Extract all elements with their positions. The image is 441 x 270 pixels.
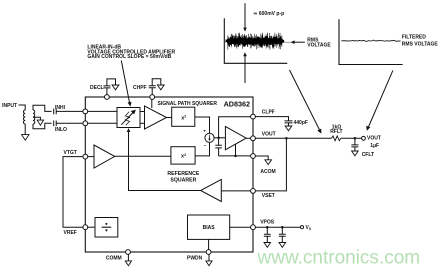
wire summing node to reference squarer: [195, 142, 209, 156]
wire BIAS to VPOS: [230, 226, 251, 228]
wire VSET external feedback: [256, 138, 287, 191]
capacitor CFLT: [351, 145, 358, 147]
wire VPOS to VS terminal: [256, 226, 301, 228]
pin VOUT: [251, 136, 256, 141]
svg-text:INHI: INHI: [55, 105, 66, 111]
pin VREF: [83, 225, 88, 230]
wire supply cap 2: [281, 227, 283, 234]
annotation VGA note: [87, 45, 175, 61]
ground primary: [22, 135, 29, 141]
wire secondary center tap: [33, 117, 40, 120]
VSET buffer triangle: [201, 179, 222, 201]
label divide symbol: [102, 223, 112, 232]
svg-text:VSET: VSET: [262, 193, 275, 199]
wire cap to INLO pin: [56, 122, 83, 124]
svg-text:GAIN CONTROL SLOPE = 50mV/dB: GAIN CONTROL SLOPE = 50mV/dB: [87, 54, 171, 60]
wire CFLT to ground: [354, 147, 356, 151]
wire INLO pin to VGA: [88, 122, 117, 124]
right scope filtered trace: [341, 40, 400, 41]
wire amplifier to squarer: [167, 117, 172, 119]
svg-text:RMS VOLTAGE: RMS VOLTAGE: [402, 42, 439, 48]
svg-text:VOLTAGE: VOLTAGE: [307, 43, 331, 49]
wire VTGT pin to buffer: [88, 156, 94, 158]
wire INHI pin to VGA: [88, 110, 117, 112]
wire CLPF pin internal: [219, 117, 251, 138]
wire buffer to VOUT pin: [246, 137, 250, 139]
wire VGA to amplifier lower: [140, 122, 145, 124]
ground center tap: [37, 120, 43, 125]
wire COMM to ground: [127, 255, 129, 261]
wire VGA to amplifier upper: [140, 111, 145, 113]
wire VOUT to RFLT: [256, 137, 332, 139]
wire 440pF to ground: [288, 123, 290, 126]
label FILTERED RMS VOLTAGE: [402, 35, 439, 48]
svg-text:CLPF: CLPF: [262, 110, 275, 116]
node CFLT junction: [354, 137, 357, 140]
svg-text:BIAS: BIAS: [203, 225, 216, 231]
svg-text:REFERENCE: REFERENCE: [167, 171, 200, 177]
capacitor INHI coupling: [54, 109, 57, 115]
arrow down to waveform top: [243, 3, 247, 31]
wire cap to INHI pin: [56, 110, 83, 112]
transformer T1 primary winding: [23, 110, 25, 124]
callout line left scope to VOUT wire: [290, 70, 322, 134]
wire CHPF cap to ground: [152, 79, 161, 86]
wire supply cap 1: [266, 227, 268, 234]
wire primary to ground: [24, 124, 26, 135]
svg-text:SIGNAL PATH SQUARER: SIGNAL PATH SQUARER: [158, 101, 218, 107]
wire BIAS to PWDN: [208, 239, 210, 249]
svg-text:INPUT: INPUT: [2, 103, 17, 109]
arrow RMS VOLTAGE to waveform: [291, 40, 305, 44]
svg-text:SQUARER: SQUARER: [170, 178, 196, 184]
wire VSET pin to buffer: [221, 190, 250, 192]
svg-text:ACOM: ACOM: [260, 169, 275, 175]
wire PWDN to ground: [208, 255, 210, 261]
pin VSET: [251, 189, 256, 194]
VGA variable gain amplifier box: [117, 108, 140, 128]
wire supply cap 2 to ground: [281, 236, 283, 242]
svg-text:AD8362: AD8362: [224, 99, 250, 108]
wire VTGT to VREF external: [63, 157, 83, 228]
pin CHPF: [150, 95, 155, 100]
capacitor INLO coupling: [54, 121, 57, 127]
svg-text:COMM: COMM: [106, 256, 122, 262]
terminal VOUT: [362, 136, 366, 140]
wire squarer to summing node: [195, 117, 210, 133]
callout line right scope to VOUT terminal: [366, 70, 393, 130]
ground CHPF: [157, 85, 164, 90]
wire INPUT to transformer primary: [19, 105, 26, 110]
output buffer triangle: [225, 127, 246, 150]
pin CLPF: [251, 114, 256, 119]
pin ACOM: [251, 154, 256, 159]
VGA variable symbol: [121, 110, 136, 126]
svg-text:CHPF: CHPF: [133, 85, 147, 91]
ground DECL: [112, 85, 119, 90]
wire VTGT buffer to reference squarer: [115, 155, 171, 157]
wire DECL cap to ground: [107, 79, 116, 86]
svg-text:−: −: [204, 143, 207, 148]
wire VREF to divider box: [88, 226, 95, 228]
divider box: [95, 218, 118, 238]
transformer T1 secondary winding: [33, 110, 35, 124]
pin INLO: [83, 121, 88, 126]
capacitor CLPF internal: [215, 138, 222, 156]
ground COMM: [125, 261, 131, 266]
VTGT buffer triangle: [94, 145, 115, 168]
summing node current source: [205, 133, 214, 142]
capacitor supply 1: [264, 234, 271, 236]
pin DECL: [105, 95, 110, 100]
ground 440pF: [285, 126, 292, 131]
node VOUT VSET junction: [285, 137, 288, 140]
svg-text:+: +: [203, 129, 206, 134]
BIAS box: [188, 215, 230, 239]
arrow gain control into VGA: [127, 128, 131, 132]
annotation arrow to VGA: [121, 61, 131, 107]
wire ACOM to ground: [256, 156, 269, 160]
svg-text:440pF: 440pF: [294, 120, 308, 126]
capacitor 440pF: [285, 121, 293, 123]
pin INHI: [83, 109, 88, 114]
label REFERENCE SQUARER: [167, 171, 200, 184]
reference squarer box: [171, 147, 195, 164]
ground CFLT: [352, 151, 359, 156]
wire RFLT to VOUT terminal: [341, 137, 362, 139]
wire CLPF external to cap: [256, 117, 289, 121]
svg-text:PWDN: PWDN: [187, 256, 203, 262]
svg-text:CFLT: CFLT: [362, 152, 374, 158]
svg-text:≃ 600mV p-p: ≃ 600mV p-p: [253, 11, 284, 17]
pin PWDN: [206, 250, 211, 255]
wire buffer to ACOM wire: [235, 144, 237, 156]
capacitor DECL decoupling: [103, 86, 110, 88]
signal path squarer box: [172, 107, 195, 126]
amplifier A1 triangle: [145, 106, 167, 129]
wire CHPF pin to cap: [151, 88, 153, 95]
node supply cap 2 junction: [281, 226, 284, 229]
node buffer ground junction: [234, 155, 237, 158]
terminal VS: [300, 226, 303, 229]
capacitor supply 2: [279, 234, 286, 236]
resistor RFLT: [332, 136, 341, 141]
pin VTGT: [83, 154, 88, 159]
node supply cap 1 junction: [266, 226, 269, 229]
chip AD8362 outline: [85, 97, 253, 252]
wire secondary top to coupling cap: [33, 105, 52, 111]
left scope waveform center line: [284, 41, 291, 43]
ground ACOM: [265, 160, 272, 165]
wire ACOM internal: [219, 155, 251, 157]
ground supply cap 2: [279, 243, 286, 248]
svg-text:RFLT: RFLT: [330, 129, 342, 135]
pin VPOS: [251, 225, 256, 230]
left scope noisy RMS waveform: [226, 33, 284, 50]
svg-text:VOUT: VOUT: [262, 131, 276, 137]
wire VSET buffer to VGA gain control: [129, 131, 201, 191]
arrow up to waveform bottom: [243, 52, 247, 83]
svg-text:FILTERED: FILTERED: [402, 35, 426, 41]
svg-text:www.cntronics.com: www.cntronics.com: [257, 248, 421, 269]
ground supply cap 1: [264, 243, 271, 248]
svg-text:DECL: DECL: [90, 85, 104, 91]
node CLPF junction: [217, 137, 220, 140]
ground PWDN: [206, 261, 212, 266]
svg-text:INLO: INLO: [55, 127, 67, 133]
wire CHPF pin into amplifier: [151, 99, 153, 108]
svg-text:VTGT: VTGT: [64, 150, 77, 156]
right scope axes: [339, 19, 403, 64]
left scope axes: [224, 18, 287, 63]
svg-text:VOUT: VOUT: [367, 135, 381, 141]
wire secondary bottom to coupling cap: [33, 123, 52, 128]
svg-text:VREF: VREF: [64, 230, 77, 236]
wire summing node to buffer: [214, 137, 225, 139]
wire supply cap 1 to ground: [266, 236, 268, 242]
svg-text:1µF: 1µF: [370, 143, 379, 149]
capacitor CHPF: [149, 86, 156, 88]
svg-text:VPOS: VPOS: [260, 220, 275, 226]
label RMS VOLTAGE: [307, 37, 331, 48]
wire DECL pin to cap: [106, 88, 108, 95]
wire CFLT junction to cap: [354, 138, 356, 145]
pin COMM: [126, 250, 131, 255]
svg-text:VS: VS: [306, 225, 312, 231]
